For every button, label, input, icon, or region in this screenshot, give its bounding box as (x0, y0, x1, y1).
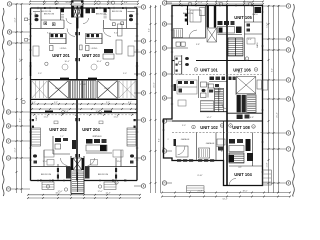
svg-text:13'-0": 13'-0" (116, 161, 121, 163)
svg-text:STAIR: STAIR (80, 83, 86, 86)
svg-text:UNIT 108: UNIT 108 (232, 125, 250, 130)
svg-text:9'-0": 9'-0" (182, 125, 186, 127)
svg-text:9'-2": 9'-2" (114, 33, 118, 35)
svg-text:H: H (8, 188, 10, 191)
svg-text:11'-2": 11'-2" (15, 147, 17, 152)
svg-text:BEDROOM: BEDROOM (96, 14, 107, 16)
svg-text:BATH: BATH (35, 115, 38, 121)
svg-text:GARAGE: GARAGE (181, 138, 190, 141)
svg-text:8'-0": 8'-0" (20, 118, 22, 122)
svg-text:14'-2": 14'-2" (206, 117, 211, 119)
svg-text:UNIT 203: UNIT 203 (82, 53, 100, 58)
svg-text:DECK: DECK (55, 88, 61, 90)
svg-text:UNIT 201: UNIT 201 (52, 53, 70, 58)
svg-text:BATH: BATH (252, 13, 258, 16)
svg-text:GARAGE: GARAGE (206, 142, 215, 145)
svg-text:UNIT 101: UNIT 101 (200, 68, 218, 73)
svg-text:UNIT 104: UNIT 104 (234, 172, 252, 177)
svg-text:54'-2": 54'-2" (222, 199, 227, 201)
svg-text:7'-2": 7'-2" (60, 136, 64, 138)
svg-text:BEDROOM: BEDROOM (41, 11, 52, 13)
svg-text:C: C (9, 42, 11, 45)
svg-text:24'-6": 24'-6" (107, 2, 112, 4)
svg-text:9'-2": 9'-2" (47, 33, 51, 35)
svg-text:11'-8": 11'-8" (267, 162, 269, 167)
svg-text:22'-4": 22'-4" (197, 2, 202, 4)
svg-text:6'-1": 6'-1" (32, 102, 36, 104)
svg-text:D: D (164, 73, 166, 76)
svg-text:UNIT 204: UNIT 204 (82, 127, 100, 132)
svg-text:8'-10": 8'-10" (197, 175, 202, 177)
svg-text:UNIT 105: UNIT 105 (234, 15, 252, 20)
svg-text:16'-2": 16'-2" (243, 2, 248, 4)
svg-text:24'-6": 24'-6" (65, 2, 70, 4)
svg-text:5'-0": 5'-0" (123, 73, 127, 75)
svg-text:G: G (8, 157, 10, 160)
svg-text:9'-2": 9'-2" (149, 28, 151, 32)
svg-text:16'-4": 16'-4" (64, 61, 69, 63)
svg-text:LIVING: LIVING (60, 48, 67, 50)
svg-text:D: D (8, 111, 10, 114)
svg-text:5'-2": 5'-2" (54, 102, 58, 104)
svg-text:5'-0": 5'-0" (38, 73, 42, 75)
svg-text:BEDROOM: BEDROOM (112, 11, 123, 13)
svg-text:11'-6": 11'-6" (44, 117, 49, 119)
svg-text:H: H (164, 182, 166, 185)
svg-text:7'-2": 7'-2" (93, 136, 97, 138)
svg-text:17'-0": 17'-0" (97, 191, 102, 193)
svg-text:BEDROOM: BEDROOM (98, 174, 109, 176)
svg-text:16'-4": 16'-4" (96, 61, 101, 63)
svg-text:DECK: DECK (104, 88, 110, 90)
svg-text:9'-6": 9'-6" (20, 58, 22, 62)
svg-text:17'-0": 17'-0" (57, 191, 62, 193)
svg-text:21'-0": 21'-0" (154, 82, 156, 87)
svg-text:21'-8": 21'-8" (197, 190, 202, 192)
svg-text:BEDROOM: BEDROOM (183, 13, 194, 15)
svg-text:BATH: BATH (34, 12, 37, 18)
svg-text:10'-0": 10'-0" (237, 72, 242, 74)
svg-text:BEDROOM: BEDROOM (44, 14, 55, 16)
svg-text:UNIT 102: UNIT 102 (200, 125, 218, 130)
svg-text:21'-4": 21'-4" (277, 112, 279, 117)
svg-text:BEDROOM: BEDROOM (41, 174, 52, 176)
svg-text:13'-6": 13'-6" (267, 22, 269, 27)
svg-text:6'-8": 6'-8" (250, 117, 254, 119)
svg-text:9'-0": 9'-0" (272, 68, 274, 72)
svg-text:8'-4": 8'-4" (43, 2, 47, 4)
svg-text:LIVING: LIVING (91, 48, 98, 50)
svg-text:11'-6": 11'-6" (114, 117, 119, 119)
svg-text:5'-2": 5'-2" (106, 102, 110, 104)
svg-text:BATH: BATH (256, 42, 259, 48)
svg-text:UNIT 202: UNIT 202 (49, 127, 67, 132)
svg-text:8'-4": 8'-4" (124, 2, 128, 4)
svg-text:11'-2": 11'-2" (15, 17, 17, 22)
svg-text:5'-4": 5'-4" (248, 39, 252, 41)
svg-text:18'-0": 18'-0" (242, 190, 247, 192)
svg-text:C: C (164, 47, 166, 50)
svg-text:9'-8": 9'-8" (196, 44, 200, 46)
svg-text:12'-4": 12'-4" (105, 193, 110, 195)
svg-text:8'-4": 8'-4" (159, 138, 161, 142)
svg-text:6'-1": 6'-1" (128, 102, 132, 104)
